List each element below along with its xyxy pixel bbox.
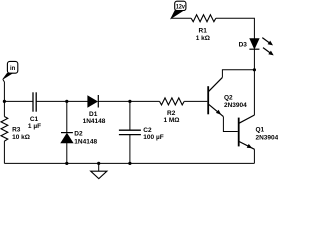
node ground tap — [97, 162, 100, 165]
node input — [3, 100, 6, 103]
wire Q1 collector to node — [253, 70, 255, 115]
svg-text:D3: D3 — [239, 42, 248, 49]
power flag 12v — [171, 1, 186, 18]
wire C2 branch from node B — [129, 101, 131, 130]
resistor R1 — [191, 15, 216, 22]
wire D1 to node B — [98, 100, 130, 102]
wire left rail lower — [3, 141, 5, 163]
node B — [128, 100, 131, 103]
node A — [65, 100, 68, 103]
svg-text:100 µF: 100 µF — [143, 134, 163, 141]
svg-text:2N3904: 2N3904 — [256, 135, 279, 142]
svg-text:R1: R1 — [199, 27, 208, 34]
diode D1 — [88, 95, 99, 108]
svg-text:C2: C2 — [143, 127, 152, 134]
svg-text:1N4148: 1N4148 — [83, 118, 106, 125]
LED light arrow 1 — [262, 38, 273, 46]
node C2 bottom — [128, 162, 131, 165]
wire D2 branch from node A — [66, 101, 68, 132]
svg-text:1 µF: 1 µF — [28, 123, 41, 130]
wire in flag to input node — [3, 79, 5, 101]
wire node A to D1 — [67, 100, 88, 102]
capacitor C1 — [33, 92, 36, 111]
LED light arrow 2 — [263, 48, 274, 56]
wire node to Q2 collector — [222, 70, 254, 78]
svg-text:1 kΩ: 1 kΩ — [196, 35, 210, 42]
wire Q2 emitter to Q1 base — [223, 117, 237, 132]
node D2 bottom — [65, 162, 68, 165]
resistor R2 — [160, 98, 185, 105]
wire D3 cathode to node — [253, 49, 255, 70]
wire bottom rail — [4, 162, 254, 164]
svg-text:R3: R3 — [12, 126, 21, 133]
wire D2 to bottom rail — [66, 143, 68, 164]
wire node to C1 — [4, 100, 33, 102]
svg-text:1N4148: 1N4148 — [74, 139, 97, 146]
transistor Q1 — [239, 115, 255, 149]
wire C1 to node A — [36, 100, 67, 102]
capacitor C2 — [119, 130, 141, 134]
svg-text:10 kΩ: 10 kΩ — [12, 134, 30, 141]
svg-text:C1: C1 — [30, 116, 39, 123]
resistor R3 — [1, 117, 8, 142]
wire R2 to Q2 base — [184, 100, 207, 102]
svg-text:D2: D2 — [74, 131, 83, 138]
svg-text:2N3904: 2N3904 — [224, 102, 247, 109]
svg-text:Q2: Q2 — [224, 95, 233, 102]
node collector junction — [253, 68, 256, 71]
wire C2 to bottom rail — [129, 135, 131, 164]
svg-text:in: in — [10, 66, 16, 72]
wire Q1 emitter to bottom rail — [253, 149, 255, 163]
ground — [91, 163, 107, 178]
input flag in — [3, 61, 18, 79]
svg-text:12v: 12v — [176, 4, 186, 10]
LED D3 — [249, 39, 259, 50]
diode D2 — [61, 133, 73, 143]
transistor Q2 — [208, 77, 223, 116]
wire 12v flag to R1 — [171, 17, 191, 19]
svg-text:Q1: Q1 — [256, 126, 265, 133]
svg-text:1 MΩ: 1 MΩ — [163, 117, 179, 124]
wire left rail upper — [3, 101, 5, 116]
wire node B to R2 — [130, 100, 160, 102]
wire R1 to D3 (corner) — [216, 18, 255, 38]
